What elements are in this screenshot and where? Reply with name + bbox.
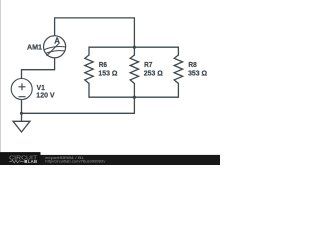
wire V1 bottom to ground node: [21, 100, 23, 114]
node junction ground: [20, 112, 23, 115]
node junction top: [133, 46, 136, 49]
resistor R7: [130, 55, 138, 84]
wire R7 bottom lead: [133, 84, 135, 98]
wire bottom rail to ground node: [22, 97, 135, 113]
wire ammeter top to top rail: [55, 18, 135, 47]
wire bottom rail: [89, 84, 178, 98]
resistor R6: [85, 55, 93, 84]
node junction bottom: [133, 96, 136, 99]
left edge border: [0, 0, 2, 152]
watermark bar: [41, 155, 221, 165]
svg-text:153 Ω: 153 Ω: [98, 70, 117, 77]
svg-text:120 V: 120 V: [36, 93, 55, 100]
watermark logo squiggle: [9, 160, 24, 163]
svg-text:V1: V1: [37, 85, 45, 92]
ground: [13, 121, 30, 132]
svg-text:R6: R6: [99, 62, 107, 69]
wire top rail: [89, 47, 178, 55]
svg-text:353 Ω: 353 Ω: [188, 70, 207, 77]
ammeter AM1: [44, 35, 66, 58]
resistor R8: [174, 55, 182, 84]
svg-text:R7: R7: [144, 62, 152, 69]
svg-text:253 Ω: 253 Ω: [144, 70, 163, 77]
svg-text:AM1: AM1: [27, 44, 42, 51]
svg-text:LAB: LAB: [28, 159, 38, 164]
voltage source V1: [11, 79, 32, 100]
svg-text:R8: R8: [188, 62, 196, 69]
wire ground stub: [21, 113, 23, 121]
watermark logo box: [0, 152, 41, 165]
svg-text:http//circuitlab.com/76us99999: http//circuitlab.com/76us999992v: [45, 160, 105, 164]
wire R7 top lead: [133, 47, 135, 55]
svg-text:A: A: [54, 35, 60, 45]
wire ammeter bottom to V1 top: [22, 58, 55, 79]
